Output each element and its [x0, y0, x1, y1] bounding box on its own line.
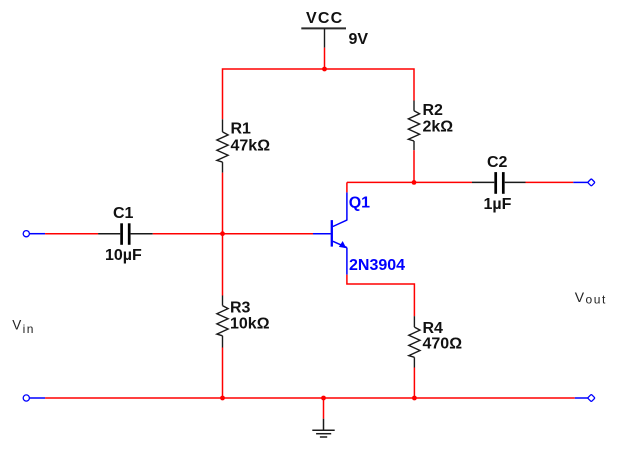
wire R4 to bottom rail — [413, 368, 415, 399]
svg-text:10µF: 10µF — [105, 247, 142, 264]
svg-text:C2: C2 — [487, 154, 508, 171]
wire bottom-left (blue) — [30, 397, 45, 399]
wire C2 to output — [526, 181, 574, 183]
wire R2 to collector node — [413, 150, 415, 182]
wire collector lead — [346, 182, 348, 192]
svg-text:2kΩ: 2kΩ — [423, 119, 454, 136]
terminal output — [588, 179, 595, 186]
transistor Q1 — [313, 192, 347, 274]
svg-text:10kΩ: 10kΩ — [230, 316, 270, 333]
junction VCC / top rail — [322, 67, 327, 72]
terminal bottom-right — [588, 394, 595, 401]
resistor R2 — [408, 101, 419, 151]
terminal bottom-left — [23, 395, 29, 401]
svg-text:2N3904: 2N3904 — [349, 257, 405, 274]
wire base node to Q1 — [223, 233, 314, 235]
wire bottom-right (blue) — [575, 397, 588, 399]
wire emitter — [347, 275, 415, 317]
svg-text:Q1: Q1 — [349, 195, 370, 212]
wire ground lead — [323, 398, 325, 419]
ground — [312, 419, 334, 437]
svg-text:R4: R4 — [423, 320, 444, 337]
capacitor C2 — [472, 172, 526, 194]
svg-text:47kΩ: 47kΩ — [231, 138, 271, 155]
wire VCC lead — [324, 48, 326, 69]
svg-text:C1: C1 — [113, 205, 134, 222]
resistor R3 — [217, 296, 228, 348]
junction collector node — [412, 180, 417, 185]
capacitor C1 — [98, 223, 153, 245]
svg-text:out: out — [586, 293, 607, 307]
wire C1 to base node — [153, 233, 223, 235]
wire base node to R3 — [222, 234, 224, 296]
svg-text:V: V — [12, 318, 21, 333]
svg-text:VCC: VCC — [306, 10, 343, 27]
resistor R1 — [217, 119, 228, 172]
svg-text:R3: R3 — [230, 300, 251, 317]
wire collector to R2 node — [347, 181, 414, 183]
wire R1 to base node — [222, 173, 224, 234]
wire output (blue) — [573, 181, 587, 183]
wire input (blue) — [30, 233, 45, 235]
svg-text:R1: R1 — [231, 121, 252, 138]
svg-text:9V: 9V — [349, 31, 369, 48]
wire R3 to ground rail — [222, 348, 224, 399]
svg-text:1µF: 1µF — [484, 196, 512, 213]
junction R3 / bottom rail — [220, 396, 225, 401]
wire collector node to C2 — [414, 181, 472, 183]
svg-text:R2: R2 — [423, 102, 444, 119]
resistor R4 — [409, 316, 420, 367]
svg-text:470Ω: 470Ω — [423, 336, 463, 353]
terminal input Vin — [23, 231, 29, 237]
wire input to C1 — [45, 233, 98, 235]
svg-text:in: in — [23, 322, 35, 336]
junction base node — [220, 231, 225, 236]
power symbol VCC — [301, 10, 346, 48]
junction ground / bottom rail — [321, 396, 326, 401]
junction R4 / bottom rail — [412, 396, 417, 401]
wire top rail — [223, 69, 415, 119]
wire bottom rail — [45, 397, 575, 399]
svg-text:V: V — [575, 289, 585, 305]
